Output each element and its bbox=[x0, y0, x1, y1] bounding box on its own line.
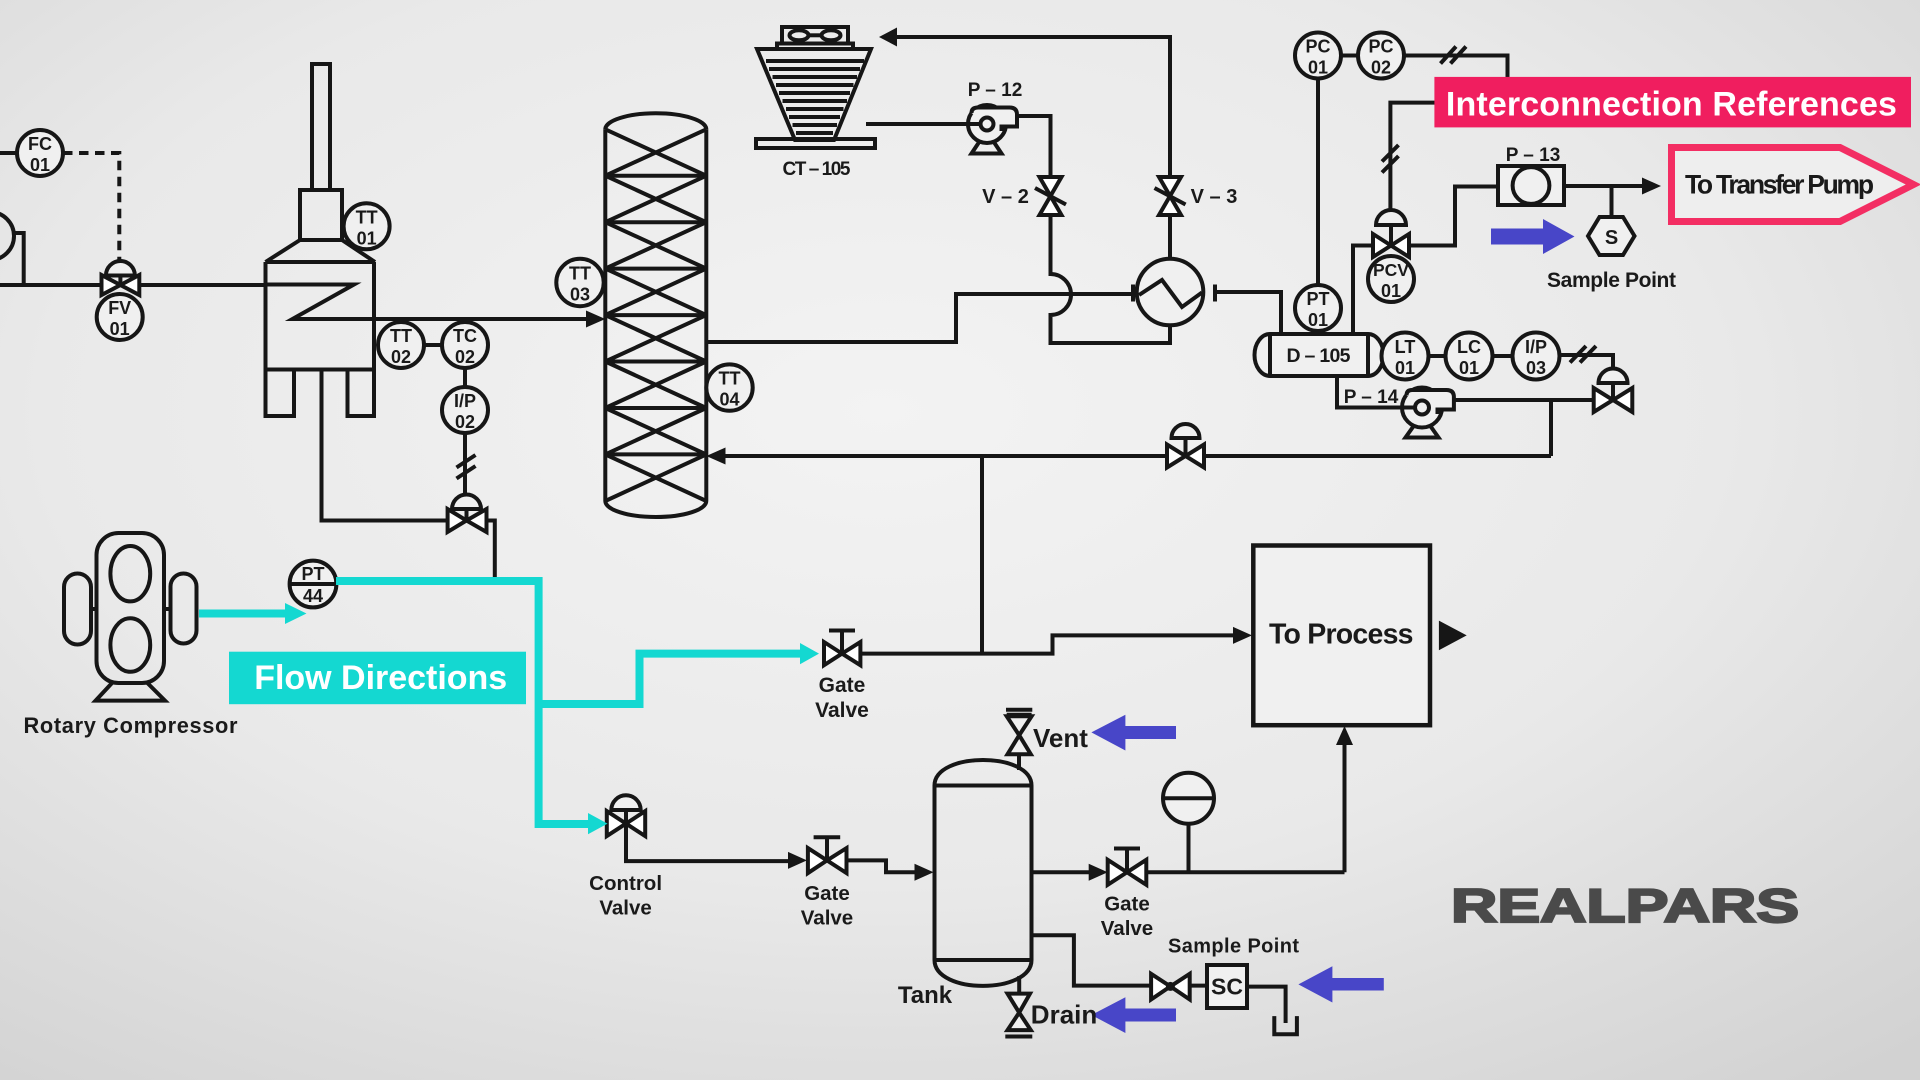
instrument I-P-03 bbox=[1513, 333, 1560, 380]
wire FC-01 to FV-01 dashed signal bbox=[63, 153, 119, 262]
svg-text:CT – 105: CT – 105 bbox=[783, 159, 851, 180]
svg-text:Gate: Gate bbox=[804, 882, 850, 905]
signal slashes I-P-02 bbox=[457, 455, 476, 479]
valve V-2 bbox=[1035, 177, 1066, 215]
instrument TC-02 bbox=[442, 322, 488, 368]
pipe PCV-01 outlet to P-13 bbox=[1409, 187, 1498, 246]
svg-text:To Transfer Pump: To Transfer Pump bbox=[1685, 170, 1874, 200]
pipe return line to column bbox=[723, 454, 1551, 458]
svg-text:FC: FC bbox=[28, 134, 52, 154]
svg-text:Drain: Drain bbox=[1031, 1000, 1097, 1030]
instrument TT-03 bbox=[556, 259, 603, 306]
svg-text:04: 04 bbox=[719, 390, 739, 410]
level valve with actuator bbox=[1594, 369, 1633, 413]
pipe P-13 outlet to transfer pump bbox=[1564, 184, 1645, 188]
arrowhead into To Process left bbox=[1233, 627, 1252, 644]
svg-text:Control: Control bbox=[589, 872, 662, 895]
signal slashes PC-02 line bbox=[1441, 47, 1467, 64]
arrowhead into gate valve 3 bbox=[1089, 864, 1108, 881]
wire PC-01 to PT-01 and drum bbox=[1316, 79, 1320, 334]
control valve below I-P-02 bbox=[448, 494, 487, 532]
pump P-14 bbox=[1402, 388, 1454, 438]
pipe control valve outlet down to cyan line bbox=[487, 521, 495, 578]
svg-text:Valve: Valve bbox=[599, 897, 651, 920]
svg-text:Interconnection References: Interconnection References bbox=[1446, 86, 1897, 124]
gate valve 2 tank inlet bbox=[808, 837, 847, 873]
direction arrow at vent bbox=[1091, 715, 1176, 751]
pipe V-2 riser from P-12 bbox=[1017, 116, 1051, 177]
svg-text:TC: TC bbox=[453, 326, 477, 346]
pipe control valve outlet to gate valve bbox=[626, 824, 791, 862]
flow highlight cyan branch to gate valve bbox=[539, 654, 801, 704]
fired heater vessel bbox=[266, 64, 376, 416]
svg-text:P – 14: P – 14 bbox=[1344, 387, 1399, 408]
pipe left pump outlet bbox=[13, 233, 24, 285]
pipe tank outlet to gate valve bbox=[1032, 870, 1093, 874]
arrowhead out of To Process bbox=[1439, 621, 1467, 651]
svg-text:Gate: Gate bbox=[819, 674, 866, 697]
svg-text:P – 12: P – 12 bbox=[968, 80, 1023, 101]
svg-text:Valve: Valve bbox=[815, 699, 869, 722]
svg-text:01: 01 bbox=[1459, 358, 1479, 378]
packed column bbox=[605, 113, 706, 517]
wire PC-02 signal to banner corner bbox=[1404, 56, 1508, 78]
pipe riser up to To Process box bbox=[1343, 744, 1347, 872]
pipe gate valve to To Process riser bbox=[1146, 870, 1344, 874]
wire I-P-03 signal to level valve bbox=[1560, 355, 1614, 369]
instrument PCV-01 bbox=[1368, 256, 1414, 302]
svg-text:V – 2: V – 2 bbox=[982, 186, 1029, 208]
svg-text:02: 02 bbox=[1371, 58, 1391, 78]
instrument LC-01 bbox=[1446, 333, 1493, 380]
instrument PT-01 bbox=[1295, 285, 1341, 331]
instrument TT-04 bbox=[706, 364, 752, 410]
svg-text:02: 02 bbox=[455, 347, 475, 367]
control valve on cyan line bbox=[607, 795, 645, 836]
drain relief symbol bbox=[1005, 994, 1032, 1037]
instrument PC-02 bbox=[1358, 33, 1404, 79]
svg-text:Gate: Gate bbox=[1104, 893, 1150, 916]
wire sample point stem bbox=[1610, 186, 1614, 217]
svg-text:TT: TT bbox=[390, 326, 412, 346]
flow arrow compressor outlet bbox=[199, 603, 307, 624]
pipe branch down to gate valve line bbox=[980, 456, 984, 654]
pipe condenser outlet to D-105 bbox=[1217, 292, 1281, 334]
svg-text:SC: SC bbox=[1211, 974, 1243, 1000]
wire TT-02 to TC-02 bbox=[424, 343, 442, 347]
wire I-P-02 to valve actuator bbox=[463, 433, 467, 497]
instrument I-P-02 bbox=[442, 387, 488, 433]
tank vessel bbox=[935, 760, 1032, 986]
wire level gauge stem bbox=[1187, 824, 1191, 872]
rotary compressor bbox=[64, 533, 197, 701]
direction arrow at sample point S bbox=[1491, 219, 1575, 254]
arrowhead overhead to CT-105 bbox=[879, 28, 897, 47]
drain funnel bbox=[1274, 1016, 1297, 1034]
gate valve 3 tank outlet bbox=[1108, 849, 1147, 885]
arrowhead up into To Process bottom bbox=[1336, 726, 1353, 745]
heater coil zigzag and outlet to column bbox=[266, 285, 591, 320]
instrument FC-01 bbox=[17, 130, 63, 176]
svg-text:03: 03 bbox=[570, 285, 590, 305]
pipe CT-105 outlet to P-12 bbox=[866, 122, 968, 126]
svg-text:PC: PC bbox=[1305, 37, 1330, 57]
wire LT-01 to LC-01 bbox=[1429, 354, 1446, 358]
svg-text:D – 105: D – 105 bbox=[1287, 345, 1351, 367]
flow arrowhead into gate valve bbox=[800, 643, 819, 664]
arrowhead feed into column bbox=[586, 311, 605, 328]
svg-text:Flow Directions: Flow Directions bbox=[254, 659, 507, 697]
valve FV-01 with actuator bbox=[102, 261, 140, 295]
Interconnection References banner bbox=[1434, 77, 1911, 128]
level gauge bbox=[1163, 773, 1214, 824]
svg-text:PCV: PCV bbox=[1373, 260, 1409, 280]
direction arrow at SC sample point bbox=[1298, 966, 1383, 1002]
svg-text:PT: PT bbox=[1306, 289, 1329, 309]
svg-text:Tank: Tank bbox=[898, 982, 953, 1009]
pipe overhead line to CT-105 and V-3 riser bbox=[895, 37, 1170, 177]
svg-text:01: 01 bbox=[1308, 58, 1328, 78]
instrument FV-01 bbox=[97, 294, 143, 340]
drum D-105 bbox=[1254, 334, 1383, 376]
svg-text:P – 13: P – 13 bbox=[1506, 145, 1561, 166]
svg-text:02: 02 bbox=[391, 347, 411, 367]
direction arrow at drain bbox=[1091, 997, 1176, 1033]
wire vent stem bbox=[1017, 754, 1021, 770]
svg-text:TT: TT bbox=[356, 207, 378, 227]
flow arrowhead into control valve bbox=[588, 813, 608, 834]
pump P-13 inline bbox=[1498, 166, 1564, 205]
svg-text:TT: TT bbox=[569, 264, 591, 284]
To Transfer Pump sign bbox=[1672, 148, 1914, 222]
instrument PC-01 bbox=[1295, 33, 1341, 79]
valve PCV-01 with actuator bbox=[1373, 210, 1409, 257]
svg-text:Rotary Compressor: Rotary Compressor bbox=[24, 713, 239, 738]
wire stub left of FC-01 bbox=[0, 151, 17, 155]
pipe main feed line bbox=[0, 283, 266, 287]
svg-text:03: 03 bbox=[1526, 358, 1546, 378]
svg-text:S: S bbox=[1605, 227, 1618, 249]
flow highlight main cyan path bbox=[336, 581, 589, 824]
svg-text:01: 01 bbox=[1395, 358, 1415, 378]
svg-text:V – 3: V – 3 bbox=[1191, 186, 1238, 208]
Flow Directions banner bbox=[229, 652, 526, 705]
vent relief symbol bbox=[1006, 710, 1032, 755]
pipe gate valve to tank inlet bbox=[847, 860, 919, 872]
pipe V-3 to condenser top bbox=[1168, 215, 1172, 259]
svg-text:01: 01 bbox=[30, 155, 50, 175]
svg-text:TT: TT bbox=[719, 369, 741, 389]
sample point hexagon S bbox=[1588, 217, 1635, 255]
wire signal to PCV-01 below banner bbox=[1390, 103, 1434, 215]
pipe tank bottom outlet to sample valve bbox=[1030, 935, 1151, 985]
instrument LT-01 bbox=[1382, 333, 1429, 380]
svg-text:Vent: Vent bbox=[1033, 723, 1088, 753]
svg-text:LT: LT bbox=[1395, 337, 1416, 357]
svg-text:LC: LC bbox=[1457, 337, 1481, 357]
arrowhead to transfer pump bbox=[1642, 178, 1661, 195]
svg-text:FV: FV bbox=[108, 298, 131, 318]
svg-text:Valve: Valve bbox=[801, 907, 853, 930]
signal slashes I-P-03 line bbox=[1570, 346, 1596, 363]
return line valve with actuator bbox=[1167, 424, 1204, 468]
pipe column side outlet to condenser bbox=[706, 294, 1133, 342]
svg-text:Valve: Valve bbox=[1101, 917, 1153, 940]
pipe P-14 discharge to level valve bbox=[1454, 398, 1594, 402]
svg-text:02: 02 bbox=[455, 412, 475, 432]
pipe branch down to return line bbox=[1549, 400, 1553, 456]
arrowhead into gate valve 2 bbox=[788, 852, 807, 869]
pipe SC outlet to drain funnel bbox=[1247, 987, 1286, 1023]
wire LC-01 to I-P-03 bbox=[1493, 354, 1513, 358]
pipe drum bottom to P-14 bbox=[1337, 376, 1402, 408]
svg-text:44: 44 bbox=[303, 586, 323, 606]
To Process box bbox=[1253, 546, 1430, 726]
svg-text:To Process: To Process bbox=[1269, 619, 1414, 651]
svg-text:01: 01 bbox=[1308, 310, 1328, 330]
wire drain stem bbox=[1017, 976, 1021, 994]
wire PC-01 to PC-02 bbox=[1341, 54, 1358, 58]
svg-text:REALPARS: REALPARS bbox=[1451, 880, 1799, 933]
arrowhead return into column bbox=[706, 448, 725, 465]
svg-text:PT: PT bbox=[301, 564, 324, 584]
svg-text:Sample Point: Sample Point bbox=[1168, 936, 1299, 958]
instrument PT-44 bbox=[290, 561, 337, 608]
valve V-3 bbox=[1155, 177, 1186, 215]
svg-text:Sample Point: Sample Point bbox=[1547, 269, 1676, 292]
pump P-12 bbox=[968, 105, 1017, 154]
heat exchanger condenser bbox=[1133, 259, 1215, 326]
svg-text:I/P: I/P bbox=[454, 391, 476, 411]
gate valve on process line bbox=[824, 631, 860, 666]
pipe V-2 bypass with hop over condenser line bbox=[1051, 215, 1171, 343]
svg-text:01: 01 bbox=[357, 228, 377, 248]
signal slashes PCV line bbox=[1382, 145, 1399, 173]
svg-text:I/P: I/P bbox=[1525, 337, 1547, 357]
wire TC-02 to I-P-02 bbox=[463, 368, 467, 387]
pipe PCV-01 inlet from drum bbox=[1353, 246, 1373, 335]
instrument TT-02 bbox=[378, 322, 424, 368]
instrument TT-01 bbox=[344, 203, 390, 249]
pump partial at left edge bbox=[0, 212, 14, 260]
arrowhead into tank bbox=[915, 864, 934, 881]
cooling tower CT-105 bbox=[756, 27, 875, 148]
pipe gate valve outlet to To Process bbox=[860, 635, 1237, 653]
svg-text:01: 01 bbox=[110, 319, 130, 339]
sample collector SC box bbox=[1207, 965, 1247, 1008]
pipe sample valve to SC bbox=[1190, 984, 1207, 988]
pipe heater drain to control valve bbox=[322, 370, 449, 521]
sample ball valve bbox=[1151, 974, 1190, 1000]
svg-text:01: 01 bbox=[1381, 281, 1401, 301]
svg-text:PC: PC bbox=[1368, 37, 1393, 57]
